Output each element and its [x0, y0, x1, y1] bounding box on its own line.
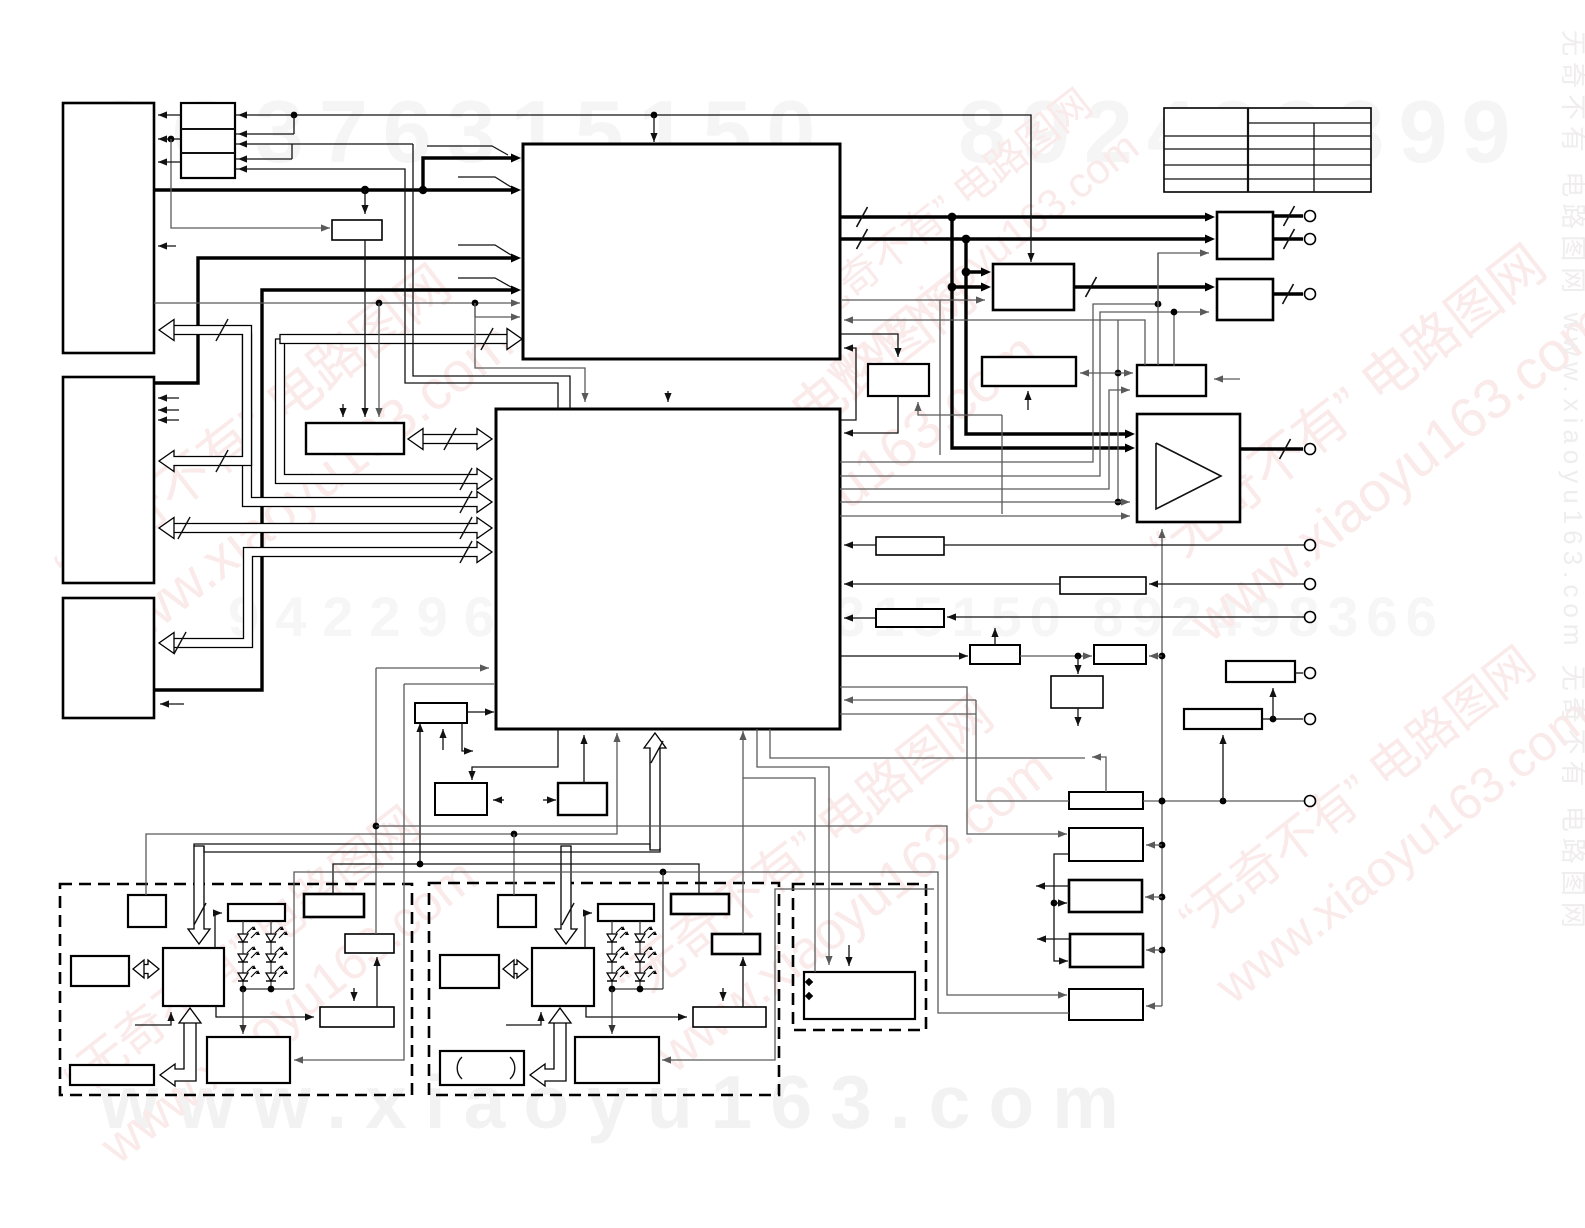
wire row3 to IC601 — [158, 158, 181, 165]
rail 864 — [333, 861, 699, 894]
wire U2-U1 feedback — [841, 344, 856, 420]
wire F short arrow — [845, 945, 852, 966]
wire BX703 up1 — [416, 723, 423, 864]
terminal CN3 — [1305, 289, 1316, 300]
box R2 regulator — [1069, 828, 1143, 861]
wire gray304 to U1 — [154, 299, 520, 306]
box LED driver1 — [228, 904, 285, 921]
bus vertical 952 to amp — [952, 217, 1135, 453]
rail 852 — [204, 846, 660, 852]
box L4 — [304, 894, 364, 917]
wire stub into IC602 y420 — [158, 416, 179, 423]
openbus IC603-U2 — [159, 541, 492, 654]
wire 976 drop to R1 — [976, 700, 1069, 801]
LED array D3 — [607, 926, 629, 981]
wire boxA right stub — [493, 796, 504, 803]
wire arrowhead row2 into 3-row box — [238, 130, 247, 137]
wire X1 right — [944, 544, 1304, 546]
bus branch 966 to S — [962, 268, 991, 277]
wire X3 left — [844, 614, 876, 621]
box M2 motor — [440, 1051, 524, 1085]
merge tap busA upper — [427, 146, 508, 155]
wire stub into IC602 y410 — [158, 406, 179, 413]
dashed box deck-3 — [793, 884, 926, 1030]
merge tap busC — [458, 278, 511, 287]
wire L6 top arrow — [350, 988, 357, 1001]
LED array D4 — [635, 926, 657, 981]
wire R4 out — [1037, 935, 1070, 942]
merge tap busB — [458, 245, 511, 255]
openbus MCU1 bottom to L2 — [160, 1008, 201, 1086]
bus A main data to U1 — [154, 186, 521, 195]
wire X1 left — [844, 541, 876, 548]
amp triangle — [1156, 443, 1221, 509]
box L5 — [345, 934, 394, 953]
connector 3-row box — [181, 103, 235, 178]
wire gray317 to U1 — [475, 313, 520, 320]
box L6 — [320, 1007, 394, 1027]
wire T bottom up-arrow — [914, 402, 1002, 415]
block S DRAM — [993, 264, 1074, 310]
box X5 — [1094, 645, 1146, 664]
wire net-a to U and V — [1080, 369, 1133, 376]
wire LDRV2 in — [583, 909, 592, 948]
wire BX703 out — [467, 708, 494, 715]
bus D2 U1 out — [840, 229, 1215, 249]
block J2 output jack buffer — [1217, 279, 1273, 320]
wire U2 687 to R2 — [840, 687, 1067, 838]
wire U2 489 to V — [840, 386, 1130, 489]
bus J2 out — [1273, 284, 1303, 304]
wire net-a vert1118 — [1115, 320, 1122, 505]
wire T bottom to U2 — [844, 396, 898, 437]
wire gray304 drop to SB2 — [375, 303, 382, 417]
box LED driver2 — [598, 904, 654, 921]
wire X4 top stub — [991, 628, 998, 645]
wire stub IC603 — [160, 700, 184, 707]
wire R1 right — [1143, 798, 1304, 805]
bus D1 U1 out — [840, 207, 1215, 227]
wire rail to R3 — [1145, 893, 1162, 900]
wire X3 right — [947, 613, 1304, 620]
wire R3 out — [1036, 882, 1069, 889]
openbus U1 head — [280, 328, 522, 350]
wire MCU2 bottom stub — [506, 1012, 545, 1025]
table version info — [1164, 108, 1371, 192]
wire F short arrow2 — [827, 965, 829, 966]
bus J1 out2 — [1273, 229, 1303, 249]
wire F feed 828 arrow — [828, 767, 830, 965]
wire U2 drop 770 — [770, 729, 1085, 758]
block T regulator — [868, 364, 929, 396]
wire up arrow into U bottom — [1024, 391, 1031, 410]
wire J2 extra in — [1171, 308, 1209, 366]
wire 475 down — [475, 303, 589, 402]
wire arrowhead row5 into 3-row box — [238, 165, 247, 172]
box R3 regulator — [1069, 880, 1142, 912]
terminal CN1 — [1305, 211, 1316, 222]
wire X2 left — [844, 580, 1060, 587]
box B clock2 — [558, 783, 607, 815]
box R5 regulator — [1069, 989, 1143, 1020]
wire U1 to T top — [840, 334, 902, 357]
box SBa — [128, 895, 166, 927]
wire stub into IC601 y246 — [158, 242, 176, 249]
bus E S to J2 — [1074, 277, 1215, 297]
junction bus A — [361, 186, 427, 194]
openbus L1-MCU1 — [133, 960, 159, 978]
box X3 — [876, 609, 944, 627]
wire RB out — [1262, 716, 1303, 723]
wire LED1 to L3 — [239, 989, 246, 1034]
bus F amp out — [1240, 439, 1303, 459]
wire arrowhead row3 into 3-row box — [238, 140, 247, 147]
wire LDRV1 in — [213, 909, 222, 948]
terminal CN10 — [1305, 796, 1316, 807]
box M1 eeprom — [440, 955, 499, 988]
box M3 loader — [575, 1037, 659, 1083]
bus vertical 966 to amp — [966, 239, 1135, 439]
wire R2-R3-R4 left link — [1051, 854, 1069, 965]
wire 404 vertical to L3 — [294, 684, 404, 1064]
openbus MCU2 top — [555, 846, 577, 944]
wire X4 left — [840, 652, 968, 659]
block U3 audio amp — [1137, 414, 1240, 522]
block V flash — [1137, 365, 1206, 396]
dashed box deck-1 — [60, 884, 412, 1095]
wire RB bottom up — [1219, 735, 1226, 801]
box M5 — [712, 934, 760, 954]
wire row2 right — [235, 115, 294, 134]
box SBb — [498, 895, 536, 927]
bus A branch up — [423, 154, 521, 191]
wire LED chain2a — [611, 921, 613, 989]
openbus fork to U2-502 — [243, 334, 493, 513]
wire SB1 input — [171, 139, 330, 232]
block U1 servo DSP — [523, 144, 840, 359]
wire row1 main — [235, 112, 1035, 262]
wire SB2 short arrow — [339, 404, 346, 417]
openbus MCU1 top — [188, 846, 210, 944]
wire LED2 to M3 — [608, 989, 615, 1034]
wire stub into IC602 y398 — [158, 394, 179, 401]
wire B6 bottom stub — [1074, 708, 1081, 726]
bus B from IC602 — [154, 254, 521, 384]
wire into U2 700 — [844, 696, 976, 703]
wire U2 left 684 — [404, 683, 494, 685]
block MCU1 — [163, 948, 224, 1006]
rail 826 — [376, 826, 1067, 999]
wire U2 top short arrow — [664, 391, 671, 402]
dashed box deck-2 — [429, 883, 779, 1095]
wire U2 up741 to F — [739, 731, 815, 972]
wire M3 right — [662, 889, 934, 1064]
wire row2 to IC601 — [158, 135, 181, 142]
wire arrowhead row1 into 3-row box — [238, 111, 247, 118]
wire R0 out — [1295, 672, 1303, 674]
wire chain2 riser — [662, 872, 664, 989]
box SB2 xtal — [306, 423, 404, 454]
wire LED chain1a — [242, 921, 244, 989]
wire V right stub — [1214, 375, 1240, 382]
terminal CN2 — [1305, 234, 1316, 245]
wire R1 top stub — [1092, 753, 1106, 792]
box X4 — [970, 645, 1020, 664]
box A clock — [435, 783, 487, 815]
wire M6 in — [586, 1006, 687, 1021]
bus J1 out1 — [1273, 206, 1303, 226]
wire drop to B6 — [1074, 656, 1081, 674]
box B6 — [1051, 676, 1103, 708]
openbus SB2-U2 bidir — [408, 428, 492, 450]
wire U2 left 668 — [376, 664, 489, 671]
wire L6 in — [216, 1006, 314, 1021]
wire 1002 drop — [1001, 415, 1003, 514]
box R0 regulator — [1226, 661, 1295, 682]
wire U2 714 — [840, 713, 976, 715]
wire S left thin — [842, 296, 985, 455]
block IC603 display — [63, 598, 154, 718]
wire U2 drop 757 — [757, 729, 833, 965]
wire row3 down to U2 — [413, 144, 570, 409]
wire MCU1 bottom stub — [135, 1012, 175, 1025]
terminal CN9 — [1305, 714, 1316, 725]
block IC602 key input — [63, 377, 154, 583]
block U2 main processor — [496, 409, 840, 729]
openbus IC601-IC602 — [159, 319, 252, 472]
wire link to R3 — [1054, 899, 1067, 906]
wire LED chain2b — [639, 921, 641, 989]
wire LED chain2 bottom — [609, 986, 663, 993]
wire arrowhead row4 into 3-row box — [238, 155, 247, 162]
rail 872 — [294, 869, 1069, 1013]
wire row4 right — [235, 144, 292, 159]
bus C from IC603 — [154, 286, 521, 691]
wire 376 vertical — [373, 668, 380, 934]
wire row1 to IC601 — [158, 111, 181, 118]
wire U2 745 to M5 — [742, 778, 744, 934]
terminal CN7 — [1305, 612, 1316, 623]
box M6 — [693, 1007, 766, 1027]
box L3 loader — [207, 1037, 290, 1083]
box SB1 reset — [332, 220, 382, 240]
bus branch 952 to S — [948, 283, 991, 292]
wire amp bottom rail — [1158, 529, 1165, 1006]
box L1 eeprom — [71, 956, 129, 986]
merge tap busA — [458, 177, 511, 187]
wire L6-L5 — [373, 957, 380, 1007]
wire BX703 stub — [462, 723, 473, 755]
LED array D1 — [238, 926, 260, 981]
wire rail to R2 — [1146, 841, 1162, 848]
box R1 regulator — [1069, 792, 1143, 809]
rail 834 — [146, 733, 621, 895]
svg-text:无奇不有 电路图网 www.xiaoyu163.com: 无奇不有 电路图网 www.xiaoyu163.com 无奇不有 电路图网 — [1558, 30, 1585, 934]
openbus IC602-U2 bidir — [159, 517, 492, 539]
wire X4-X5 — [1020, 652, 1092, 659]
wire U2 to boxA — [468, 729, 558, 780]
block U SDRAM — [982, 357, 1076, 386]
terminal CN8 — [1305, 668, 1316, 679]
wire M6 top arrow — [719, 988, 726, 1001]
box X1 — [876, 537, 944, 555]
wire rail to R5 — [1146, 1002, 1162, 1009]
box L2 motor — [70, 1065, 154, 1085]
wire LED chain1 bottom — [240, 986, 294, 993]
wire boxB top — [580, 735, 587, 783]
box RB regulator — [1184, 709, 1262, 729]
box R4 regulator — [1070, 934, 1143, 967]
wire RB-R0 — [1269, 688, 1276, 719]
terminal CN6 — [1305, 579, 1316, 590]
wire V to U1 320 — [844, 316, 1145, 365]
wire row5 right — [235, 169, 558, 409]
wire amp in 516 — [840, 512, 1130, 519]
wire amp in 502 — [840, 498, 1130, 505]
wire net-a horiz462 — [840, 301, 1161, 462]
openbus U2 bottom — [644, 733, 666, 850]
wire boxB left stub — [543, 796, 556, 803]
block IC601 system control — [63, 103, 154, 353]
LED array D2 — [266, 926, 288, 981]
terminal CN4 — [1305, 444, 1316, 455]
rail 844 — [194, 844, 650, 848]
block MCU2 — [532, 948, 594, 1006]
openbus M1-MCU2 — [503, 960, 528, 978]
wire U2 476 to J2 — [840, 312, 1174, 476]
wire LED chain1b — [270, 921, 272, 989]
wire M6-M5 — [739, 957, 746, 1007]
box X2 — [1060, 577, 1146, 594]
box BX703 — [415, 703, 467, 723]
wire SB1 top feed — [361, 190, 368, 214]
wire SB1 bottom to SB2 — [361, 240, 368, 417]
wire net-a to J1 — [1158, 249, 1209, 365]
wire X5 right in — [1149, 652, 1162, 659]
openbus MCU2 bottom to M2 — [530, 1008, 571, 1086]
wire row1 branch U1 top — [650, 115, 657, 142]
box M4 — [671, 894, 729, 914]
junction bus D — [948, 213, 971, 244]
terminal CN5 — [1305, 540, 1316, 551]
openbus U1-U2 — [276, 339, 493, 490]
wire X2 right — [1149, 580, 1304, 587]
wire row3 right — [235, 143, 413, 145]
wire rail to R4 — [1146, 946, 1162, 953]
block J1 output jack buffer — [1217, 212, 1273, 259]
wire BX703 up2 — [439, 729, 446, 750]
block F changer — [804, 972, 915, 1019]
